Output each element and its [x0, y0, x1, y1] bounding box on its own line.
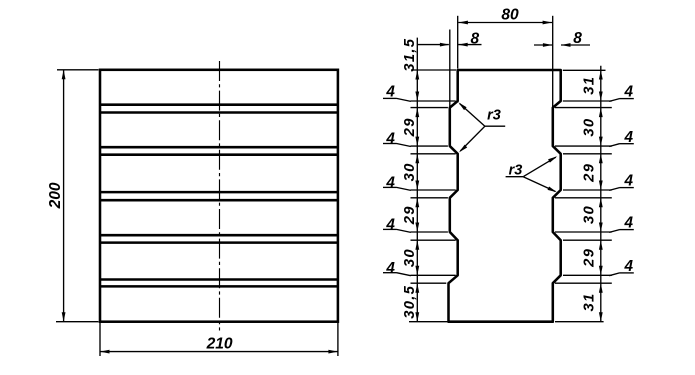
right transition 3 extension lines: [555, 190, 612, 198]
right transition 1 extension lines: [555, 101, 612, 108]
dimension 210 arrow left: [100, 350, 110, 354]
right dimension column line: [600, 66, 602, 322]
right column label 31 at 85.2: [582, 76, 598, 95]
svg-text:29: 29: [402, 205, 418, 225]
svg-text:29: 29: [402, 117, 418, 137]
right chamfer width label 4 (5): [609, 258, 634, 276]
left column label 30 at 171.9: [402, 162, 418, 181]
right chamfer width label 4 (1): [609, 84, 634, 102]
groove edge line 3a: [100, 191, 338, 194]
svg-text:30: 30: [402, 248, 418, 267]
groove edge line 1a: [100, 103, 338, 106]
svg-text:210: 210: [206, 336, 233, 353]
left column arrows section 6: [415, 283, 419, 322]
right column label 30 at 127.1: [582, 118, 598, 137]
svg-text:30: 30: [402, 162, 418, 181]
groove edge line 4b: [100, 241, 338, 244]
svg-text:r3: r3: [487, 108, 501, 124]
dimension 200 extension line top: [57, 69, 99, 71]
left transition 5 extension lines: [411, 275, 456, 283]
svg-text:30: 30: [582, 118, 598, 137]
svg-text:80: 80: [501, 7, 519, 24]
right chamfer width label 4 (4): [609, 215, 634, 233]
left extension line top edge: [411, 69, 456, 71]
right chamfer width label 4 (2): [609, 129, 634, 147]
right column label 29 at 172.3: [582, 163, 598, 183]
svg-text:29: 29: [582, 248, 598, 268]
left transition 3 extension lines: [411, 190, 456, 198]
left column arrows section 1: [415, 70, 419, 101]
svg-text:29: 29: [582, 163, 598, 183]
left chamfer width label 4 (3): [383, 175, 411, 192]
left column label 31,5 at 54.7: [402, 38, 418, 72]
left column label 30,5 at 301.8: [402, 285, 418, 319]
radius label r3 left: [458, 102, 505, 152]
svg-text:30: 30: [582, 205, 598, 224]
dimension 8 right label: [573, 30, 582, 47]
left column arrows section 3: [415, 154, 419, 190]
svg-text:31: 31: [582, 76, 598, 95]
groove edge line 1b: [100, 111, 338, 114]
dimension 200 arrow up: [62, 70, 66, 80]
left transition 2 extension lines: [411, 146, 456, 154]
dimension 80 arrow right: [543, 21, 553, 25]
front view plate outline: [100, 70, 338, 322]
dimension 8 left extension line: [449, 30, 451, 107]
right chamfer width label 4 (3): [609, 173, 634, 191]
groove edge line 5a: [100, 278, 338, 281]
dimension 210 line: [100, 351, 338, 353]
svg-text:4: 4: [385, 175, 395, 192]
dimension 200 label: [47, 182, 64, 209]
left chamfer width label 4 (1): [383, 83, 411, 101]
svg-text:4: 4: [385, 217, 395, 234]
right column arrows section 3: [599, 154, 603, 190]
right column arrows section 5: [599, 240, 603, 275]
right column arrows section 4: [599, 198, 603, 232]
svg-text:30,5: 30,5: [402, 285, 418, 319]
groove edge line 4a: [100, 234, 338, 237]
svg-text:8: 8: [470, 31, 479, 48]
svg-text:200: 200: [47, 182, 64, 209]
left column label 29 at 126.8: [402, 117, 418, 137]
right column label 29 at 257.3: [582, 248, 598, 268]
dimension 8 right tail and arrow: [534, 43, 590, 47]
radius label r3 right: [506, 156, 558, 192]
left chamfer width label 4 (2): [383, 131, 411, 148]
right transition 4 extension lines: [555, 232, 612, 240]
left column arrows section 5: [415, 240, 419, 275]
dimension 200 line: [63, 70, 65, 322]
svg-text:4: 4: [385, 260, 395, 277]
dimension 8 left tail and arrow: [417, 43, 481, 47]
section view profile outline: [449, 70, 561, 322]
dimension 210 extension line left: [99, 323, 101, 356]
right column label 30 at 214.5: [582, 205, 598, 224]
dimension 80 extension line right: [552, 16, 554, 108]
left chamfer width label 4 (5): [383, 260, 411, 277]
left column arrows section 2: [415, 108, 419, 147]
left chamfer width label 4 (4): [383, 217, 411, 234]
left column label 30 at 257.6: [402, 248, 418, 267]
dimension 80 label: [501, 7, 519, 24]
right column label 31 at 302.0: [582, 292, 598, 311]
left column label 29 at 214.7: [402, 205, 418, 225]
dimension 80 arrow left: [458, 21, 468, 25]
svg-text:31: 31: [582, 292, 598, 311]
svg-text:8: 8: [573, 30, 582, 47]
dimension 200 arrow down: [62, 312, 66, 322]
dimension 210 label: [206, 336, 233, 353]
dimension 80 line: [458, 22, 552, 24]
right transition 5 extension lines: [555, 275, 612, 283]
groove edge line 3b: [100, 199, 338, 202]
left transition 4 extension lines: [411, 232, 456, 240]
left extension line bottom edge: [409, 321, 448, 323]
dimension 200 extension line bottom: [56, 321, 99, 323]
svg-text:4: 4: [385, 131, 395, 148]
right column arrows section 2: [599, 108, 603, 147]
right column arrows section 1: [599, 70, 603, 101]
left dimension column line: [416, 38, 418, 322]
right extension line bottom edge: [555, 321, 604, 323]
dimension 80 extension line left: [457, 16, 459, 69]
left column arrows section 4: [415, 198, 419, 232]
left transition 1 extension lines: [411, 101, 456, 108]
groove edge line 5b: [100, 285, 338, 288]
dimension 8 left label: [470, 31, 479, 48]
right extension line top edge: [563, 69, 606, 71]
svg-text:r3: r3: [509, 162, 523, 178]
groove edge line 2a: [100, 146, 338, 149]
dimension 210 arrow right: [328, 350, 338, 354]
dimension 210 extension line right: [337, 323, 339, 356]
svg-text:31,5: 31,5: [402, 38, 418, 72]
groove edge line 2b: [100, 153, 338, 156]
vertical center line: [219, 61, 221, 331]
right transition 2 extension lines: [555, 146, 612, 154]
right column arrows section 6: [599, 283, 603, 322]
